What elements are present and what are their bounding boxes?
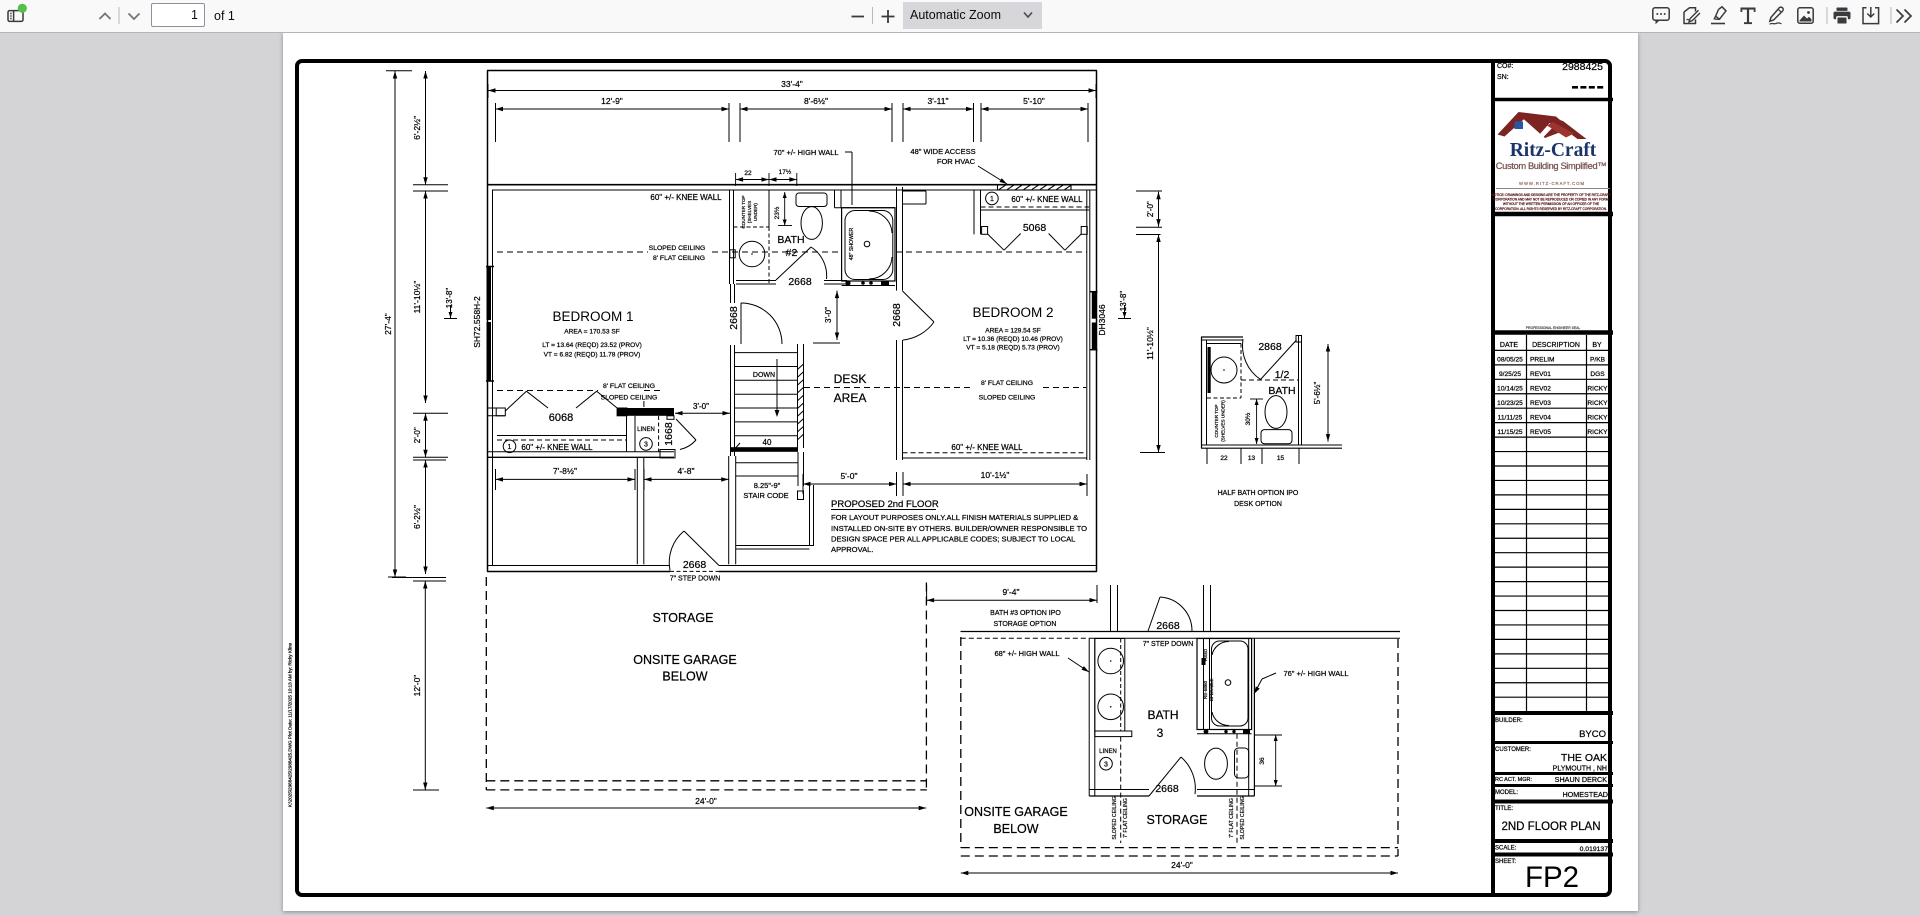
- svg-text:HOMESTEAD: HOMESTEAD: [1562, 790, 1608, 799]
- svg-text:COUNTER TOP: COUNTER TOP: [741, 195, 746, 228]
- svg-text:PROPOSED 2nd FLOOR: PROPOSED 2nd FLOOR: [831, 499, 939, 510]
- svg-text:BATH: BATH: [777, 234, 804, 246]
- circled 3 bath3: [1100, 757, 1113, 770]
- logo divider line: [1496, 188, 1610, 190]
- toolbar icon: image: [1798, 8, 1813, 23]
- label 60in knee wall left: [521, 443, 593, 452]
- label ONSITE GARAGE BELOW right: [964, 805, 1068, 836]
- wall partition storage: [637, 457, 644, 564]
- wall bath2 right: [897, 187, 903, 291]
- bedroom2 area stats: [963, 328, 1063, 352]
- svg-text:LINEN: LINEN: [637, 427, 655, 433]
- label STORAGE bath3: [1147, 813, 1208, 827]
- svg-text:REV03: REV03: [1530, 400, 1551, 407]
- dim 11'-10 1/2" left: [412, 191, 448, 403]
- bath3 top wall: [961, 632, 1401, 639]
- bath2 toilet: [796, 193, 827, 239]
- svg-text:FOR HVAC: FOR HVAC: [937, 157, 976, 166]
- dashed ceiling bed2: [804, 387, 1086, 389]
- svg-text:VT = 6.82 (REQD) 11.78 (PROV): VT = 6.82 (REQD) 11.78 (PROV): [544, 352, 641, 359]
- svg-text:68" +/- HIGH WALL: 68" +/- HIGH WALL: [994, 649, 1059, 658]
- Ritz-Craft roof logo: [1498, 112, 1587, 139]
- wall bed2 bottom band: [903, 453, 1087, 458]
- label 5068: [1023, 222, 1047, 234]
- svg-text:3'-0": 3'-0": [693, 402, 709, 411]
- bath2 vanity counter: [734, 190, 770, 283]
- svg-text:4'-8": 4'-8": [678, 466, 695, 476]
- label window DH3046: [1097, 304, 1107, 335]
- svg-text:HALF BATH OPTION IPO: HALF BATH OPTION IPO: [1218, 490, 1299, 497]
- label 60in knee wall right: [1011, 195, 1083, 204]
- sheet outer border: [297, 61, 1610, 895]
- svg-text:CUSTOMER:: CUSTOMER:: [1495, 747, 1531, 753]
- label BEDROOM 1: [552, 309, 633, 324]
- stamp area seal caption: [1526, 326, 1581, 330]
- label 2868 halfbath: [1258, 341, 1282, 353]
- dim 27'-4" overall height: [383, 71, 412, 577]
- svg-text:SH72.558H-2: SH72.558H-2: [472, 296, 482, 348]
- svg-text:1: 1: [990, 196, 994, 203]
- toolbar: divider 3: [1826, 7, 1828, 24]
- svg-text:8'-6½": 8'-6½": [804, 96, 828, 106]
- bedroom1 door 2668 arc: [741, 303, 782, 344]
- label RE-5860 shower: [1203, 649, 1214, 701]
- halfbath toilet: [1261, 396, 1292, 444]
- door 2668 step down: [669, 531, 719, 571]
- wall: bottom exterior outer: [487, 571, 1097, 573]
- svg-text:RICKY: RICKY: [1587, 385, 1608, 392]
- label BATH #2: [777, 234, 804, 259]
- toolbar icon: save: [1863, 7, 1879, 24]
- svg-text:STORAGE: STORAGE: [1147, 813, 1208, 827]
- svg-text:23½: 23½: [773, 206, 781, 219]
- svg-text:15: 15: [1277, 455, 1285, 462]
- bath3 shower door arcs: [1212, 641, 1229, 725]
- svg-text:BELOW: BELOW: [993, 822, 1038, 836]
- title block info sections: [1493, 718, 1613, 894]
- svg-text:6068: 6068: [549, 412, 573, 424]
- bath3 shower: [1197, 639, 1252, 730]
- dim 22 bath counter: [736, 170, 769, 186]
- label bath3 option ipo: [990, 610, 1061, 628]
- circled 3 linen: [640, 438, 653, 451]
- svg-text:2988425: 2988425: [1562, 61, 1603, 73]
- svg-text:SLOPED CEILING: SLOPED CEILING: [1112, 796, 1118, 839]
- dim 7'-8 1/2": [496, 466, 636, 490]
- dim 3'-0" bath2 door: [813, 291, 840, 343]
- dim 13'-8" left: [444, 288, 457, 319]
- label 2668 bedroom2 door: [891, 303, 903, 327]
- svg-text:5068: 5068: [1023, 222, 1047, 234]
- dim 3'-0" closet: [675, 402, 730, 415]
- svg-text:9/25/25: 9/25/25: [1499, 371, 1521, 378]
- svg-text:BATH #3 OPTION IPO: BATH #3 OPTION IPO: [990, 610, 1061, 617]
- logo box bottom border: [1493, 212, 1613, 217]
- label 60in knee wall bed2: [951, 443, 1023, 452]
- svg-text:DH3046: DH3046: [1097, 304, 1107, 335]
- bath3 wall stub right: [1204, 585, 1211, 632]
- wall: roofline top: [487, 70, 1097, 72]
- svg-text:CORPORATION AND MAY NOT BE REP: CORPORATION AND MAY NOT BE REPRODUCED OR…: [1494, 198, 1609, 202]
- svg-text:AREA = 170.53 SF: AREA = 170.53 SF: [564, 329, 620, 336]
- svg-text:1668: 1668: [663, 422, 675, 446]
- toolbar icon: comment: [1653, 8, 1669, 24]
- svg-text:76" +/- HIGH WALL: 76" +/- HIGH WALL: [1283, 669, 1348, 678]
- knee wall right lower dashed: [903, 452, 1087, 454]
- toolbar: divider 2: [872, 7, 874, 24]
- svg-text:60" +/- KNEE WALL: 60" +/- KNEE WALL: [521, 443, 593, 452]
- svg-text:OPERABLE: OPERABLE: [1209, 679, 1214, 702]
- toolbar: zoom out minus: [852, 16, 865, 18]
- svg-text:33'-4": 33'-4": [781, 79, 803, 89]
- svg-text:30½: 30½: [1244, 412, 1252, 425]
- svg-text:48" SHOWER: 48" SHOWER: [849, 228, 855, 261]
- wall bottom band left section: [487, 452, 674, 458]
- dim 17 1/2 bath: [769, 168, 797, 186]
- svg-text:INSTALLED ON-SITE BY OTHERS. B: INSTALLED ON-SITE BY OTHERS. BUILDER/OWN…: [831, 524, 1087, 533]
- svg-text:PROFESSIONAL ENGINEER SEAL: PROFESSIONAL ENGINEER SEAL: [1526, 326, 1581, 330]
- svg-text:13: 13: [1248, 455, 1256, 462]
- svg-text:WWW.RITZ-CRAFT.COM: WWW.RITZ-CRAFT.COM: [1519, 181, 1585, 186]
- note 68in high wall: [994, 649, 1089, 672]
- stair treads: [735, 353, 797, 436]
- SN dashes: [1572, 86, 1603, 89]
- bath3 toilet: [1205, 748, 1249, 779]
- svg-text:5'-10": 5'-10": [1023, 96, 1045, 106]
- toolbar: sidebar toggle button: [8, 11, 23, 22]
- svg-text:12'-9": 12'-9": [601, 96, 623, 106]
- closet under stair walls: [736, 452, 814, 549]
- bedroom1 area stats: [542, 329, 642, 359]
- svg-text:11/15/25: 11/15/25: [1497, 429, 1523, 436]
- svg-text:9'-4": 9'-4": [1003, 587, 1020, 597]
- wall above shower: [835, 190, 896, 208]
- stair rail hatch: [798, 364, 804, 440]
- plot file path sidebar text: [288, 642, 293, 807]
- window 5068 sills: [982, 227, 1088, 235]
- toolbar icon: print: [1834, 8, 1851, 25]
- svg-text:NOTICE: DRAWINGS AND DESIGNS A: NOTICE: DRAWINGS AND DESIGNS ARE THE PRO…: [1492, 193, 1611, 197]
- circled 1 left knee wall: [503, 440, 516, 453]
- svg-text:P/KB: P/KB: [1590, 357, 1606, 364]
- dim 5'-0": [803, 471, 897, 496]
- bath3 door 2668 top: [1148, 597, 1192, 631]
- svg-text:BUILDER:: BUILDER:: [1495, 718, 1523, 724]
- svg-text:APPROVAL.: APPROVAL.: [831, 545, 874, 554]
- wall right of bath2 stub: [903, 191, 927, 204]
- svg-text:1: 1: [508, 444, 512, 451]
- label 2668 step down: [683, 559, 707, 571]
- bedroom2 door 2668: [903, 291, 935, 340]
- svg-text:PLYMOUTH , NH: PLYMOUTH , NH: [1553, 766, 1607, 773]
- label flat/sloped bed1: [601, 383, 658, 407]
- dim 6'-2 1/2" upper: [412, 71, 448, 185]
- svg-text:MODEL:: MODEL:: [1495, 790, 1518, 796]
- svg-text:7' FLAT CEILING: 7' FLAT CEILING: [1123, 798, 1129, 838]
- knee wall left lower: [497, 436, 626, 441]
- dim 36 toilet: [1255, 735, 1282, 786]
- door 1668 wedge: [660, 419, 696, 458]
- svg-text:FIXED: FIXED: [1203, 649, 1208, 661]
- dim 5'-6 1/2 halfbath: [1313, 344, 1330, 442]
- svg-text:(SHELVES UNDER): (SHELVES UNDER): [1221, 400, 1226, 442]
- svg-text:DESCRIPTION: DESCRIPTION: [1532, 342, 1580, 349]
- note PROPOSED 2nd FLOOR: [831, 499, 1087, 554]
- dim 2'-0" right: [1136, 191, 1162, 227]
- ceiling break dashed bath3 right: [1236, 734, 1238, 843]
- circled 1 right knee wall: [986, 192, 999, 205]
- svg-text:DESK: DESK: [834, 372, 867, 386]
- svg-text:BYCO: BYCO: [1579, 729, 1606, 740]
- svg-text:UNDER): UNDER): [753, 203, 758, 221]
- svg-text:2868: 2868: [1258, 341, 1282, 353]
- label 1668: [663, 422, 675, 446]
- svg-text:2668: 2668: [683, 559, 707, 571]
- bath3 bottom wall left: [1089, 790, 1149, 797]
- svg-text:36: 36: [1259, 757, 1266, 765]
- wall: knee wall top inner: [492, 189, 1097, 191]
- svg-text:60" +/- KNEE WALL: 60" +/- KNEE WALL: [650, 193, 722, 202]
- stamp box bottom border: [1493, 330, 1613, 335]
- toolbar: page down chevron: [129, 14, 140, 20]
- window 6068 sills: [496, 408, 627, 416]
- svg-text:LT = 13.64 (REQD) 23.52 (PROV): LT = 13.64 (REQD) 23.52 (PROV): [542, 342, 642, 349]
- label 2668 bedroom1 door: [728, 306, 740, 330]
- svg-text:70" +/- HIGH WALL: 70" +/- HIGH WALL: [773, 148, 838, 157]
- svg-text:RICKY: RICKY: [1587, 429, 1608, 436]
- labels flat/sloped bath3 right: [1229, 796, 1246, 839]
- dashed ceiling break upper: [497, 251, 1087, 253]
- svg-text:DESK OPTION: DESK OPTION: [1234, 501, 1282, 508]
- toolbar: zoom dropdown: [903, 2, 1042, 29]
- label counter top halfbath: [1214, 400, 1226, 442]
- svg-text:27'-4": 27'-4": [383, 313, 393, 335]
- svg-text:22: 22: [1220, 455, 1228, 462]
- bath3 shower track: [1197, 729, 1252, 734]
- svg-text:2668: 2668: [891, 303, 903, 327]
- svg-text:DGS: DGS: [1590, 371, 1605, 378]
- svg-text:10/23/25: 10/23/25: [1497, 400, 1523, 407]
- dim 10'-1 1/2": [903, 470, 1087, 496]
- svg-text:CO#:: CO#:: [1497, 63, 1513, 70]
- label 7in step down bath3: [1143, 641, 1194, 648]
- svg-text:REV04: REV04: [1530, 414, 1551, 421]
- svg-text:SHEET:: SHEET:: [1495, 859, 1516, 865]
- svg-text:48" WIDE ACCESS: 48" WIDE ACCESS: [910, 147, 975, 156]
- bath3 bottom wall right: [1197, 790, 1254, 797]
- svg-text:60" +/- KNEE WALL: 60" +/- KNEE WALL: [1011, 195, 1083, 204]
- svg-text:2ND FLOOR PLAN: 2ND FLOOR PLAN: [1501, 821, 1600, 833]
- svg-text:10'-1½": 10'-1½": [981, 470, 1010, 480]
- label BATH 3: [1147, 708, 1178, 740]
- svg-text:STAIR CODE: STAIR CODE: [743, 491, 788, 500]
- wall: left exterior outer: [487, 71, 489, 572]
- svg-text:AREA: AREA: [834, 391, 867, 405]
- svg-text:40: 40: [763, 438, 772, 447]
- svg-text:0.019137: 0.019137: [1580, 846, 1609, 853]
- toolbar icon: more tools: [1897, 10, 1912, 23]
- svg-text:BEDROOM 2: BEDROOM 2: [972, 305, 1053, 320]
- svg-text:2668: 2668: [1155, 783, 1179, 795]
- svg-text:8' FLAT CEILING: 8' FLAT CEILING: [603, 383, 655, 390]
- wall: left exterior inner: [492, 190, 494, 566]
- label BEDROOM 2: [972, 305, 1053, 320]
- svg-text:SLOPED CEILING: SLOPED CEILING: [1240, 796, 1246, 839]
- svg-text:11'-10½": 11'-10½": [1145, 327, 1155, 360]
- svg-text:8' FLAT CEILING: 8' FLAT CEILING: [653, 255, 705, 262]
- svg-text:6'-2½": 6'-2½": [412, 116, 422, 140]
- svg-text:SHAUN DERCK: SHAUN DERCK: [1555, 775, 1608, 784]
- dim 2'-0" left: [413, 413, 448, 457]
- dim 13'-8" right: [1118, 291, 1131, 319]
- wall stair left lower: [729, 456, 736, 564]
- label 7in step down: [670, 576, 721, 583]
- svg-text:SN:: SN:: [1497, 74, 1509, 81]
- wall bed1 bottom band: [487, 408, 674, 416]
- wall bath2 bottom: [736, 281, 847, 285]
- svg-text:22: 22: [744, 170, 752, 177]
- svg-text:K:\2025\2988425\2988425.DWG P: K:\2025\2988425\2988425.DWG Plot Date: 1…: [288, 642, 293, 807]
- svg-text:3'-0": 3'-0": [824, 307, 833, 323]
- svg-text:RE-5860: RE-5860: [1203, 680, 1208, 699]
- dim extension ticks top: [496, 103, 1089, 142]
- label DOWN: [753, 372, 775, 379]
- svg-text:BEDROOM 1: BEDROOM 1: [552, 309, 633, 324]
- svg-text:7" STEP DOWN: 7" STEP DOWN: [670, 576, 721, 583]
- svg-text:#2: #2: [786, 247, 798, 259]
- svg-text:12'-0": 12'-0": [412, 675, 422, 697]
- svg-text:BY: BY: [1592, 342, 1602, 349]
- svg-text:REV02: REV02: [1530, 385, 1551, 392]
- svg-text:1/2: 1/2: [1275, 369, 1290, 381]
- svg-text:LT = 10.36 (REQD) 10.46 (PROV): LT = 10.36 (REQD) 10.46 (PROV): [963, 336, 1063, 343]
- svg-text:DESIGN SPACE PER ALL APPLICABL: DESIGN SPACE PER ALL APPLICABLE CODES; S…: [831, 535, 1075, 544]
- dim 9'-4": [927, 585, 1097, 603]
- svg-text:08/05/25: 08/05/25: [1497, 357, 1523, 364]
- svg-text:DATE: DATE: [1500, 342, 1518, 349]
- shower 48 enclosure: [842, 208, 895, 281]
- label 60in knee wall left top: [650, 193, 722, 202]
- dim 24'-0" right: [961, 860, 1398, 875]
- halfbath left wall: [1202, 337, 1207, 448]
- svg-text:SLOPED CEILING: SLOPED CEILING: [601, 395, 658, 402]
- svg-text:24'-0": 24'-0": [1171, 860, 1193, 870]
- wall: knee wall top outer: [487, 184, 1097, 186]
- label 2668 bath3 top: [1156, 620, 1180, 632]
- label 1/2 BATH: [1268, 369, 1295, 397]
- shower 48 door arcs: [869, 211, 892, 279]
- toolbar: page count: [214, 0, 235, 32]
- label 2668 bath2: [788, 276, 812, 288]
- dim 33'-4" overall width: [488, 79, 1096, 98]
- toolbar: page number input: [151, 3, 205, 27]
- window DH3046 right wall: [1090, 292, 1098, 350]
- logo text Ritz-Craft: [1510, 140, 1597, 161]
- svg-text:PRELIM: PRELIM: [1530, 357, 1555, 364]
- svg-text:SLOPED CEILING: SLOPED CEILING: [979, 395, 1036, 402]
- svg-text:7'-8½": 7'-8½": [553, 466, 577, 476]
- halfbath top wall: [1201, 337, 1243, 340]
- wall: right exterior inner B: [1089, 190, 1091, 460]
- svg-text:6'-2½": 6'-2½": [412, 505, 422, 529]
- svg-text:2'-0": 2'-0": [413, 427, 422, 443]
- label ONSITE GARAGE BELOW left: [633, 653, 737, 684]
- revision table grid: [1493, 335, 1609, 712]
- note 70in high wall: [773, 148, 852, 205]
- svg-text:FOR LAYOUT PURPOSES ONLY.ALL F: FOR LAYOUT PURPOSES ONLY.ALL FINISH MATE…: [831, 513, 1078, 522]
- svg-text:17½: 17½: [779, 168, 792, 176]
- svg-text:COUNTER TOP: COUNTER TOP: [1214, 404, 1219, 437]
- viewer background: [0, 0, 1920, 33]
- window SH72 left wall: [486, 267, 494, 382]
- wall bath2 left: [730, 190, 734, 284]
- wall: right exterior outer: [1096, 71, 1098, 572]
- title block left border: [1491, 59, 1495, 897]
- bath3 vanity: [1095, 639, 1125, 732]
- note 76in high wall: [1254, 669, 1349, 694]
- svg-text:5'-6½": 5'-6½": [1313, 382, 1322, 405]
- bath3 right wall: [1249, 639, 1255, 797]
- dim 24'-0" left: [486, 796, 926, 810]
- svg-text:AREA = 129.54 SF: AREA = 129.54 SF: [985, 328, 1041, 335]
- svg-text:ONSITE GARAGE: ONSITE GARAGE: [633, 653, 737, 667]
- toolbar icon: draw: [1770, 7, 1784, 24]
- toolbar icon: highlight: [1711, 7, 1726, 24]
- svg-text:RC ACT. MGR:: RC ACT. MGR:: [1495, 777, 1532, 783]
- svg-text:7" STEP DOWN: 7" STEP DOWN: [1143, 641, 1194, 648]
- shower 48 drain: [864, 241, 870, 247]
- svg-text:24'-0": 24'-0": [695, 796, 717, 806]
- svg-text:VT = 5.18 (REQD) 5.73 (PROV): VT = 5.18 (REQD) 5.73 (PROV): [966, 345, 1060, 352]
- svg-text:2668: 2668: [1156, 620, 1180, 632]
- svg-text:BATH: BATH: [1268, 385, 1295, 397]
- linen closet walls: [627, 416, 675, 452]
- label 2668 bath3 bottom: [1155, 783, 1179, 795]
- svg-text:8' FLAT CEILING: 8' FLAT CEILING: [981, 380, 1033, 387]
- revision table header: [1500, 342, 1602, 349]
- label stair width 40: [763, 438, 772, 447]
- svg-text:LINEN: LINEN: [1099, 749, 1117, 755]
- label half bath caption: [1218, 490, 1299, 508]
- svg-text:60" +/- KNEE WALL: 60" +/- KNEE WALL: [951, 443, 1023, 452]
- svg-text:3: 3: [1157, 726, 1164, 740]
- toolbar: page up chevron: [100, 14, 111, 20]
- hatch: 48in HVAC access strip: [998, 185, 1072, 190]
- halfbath vanity: [1207, 344, 1241, 399]
- wall bedroom2 left: [897, 340, 903, 460]
- svg-text:13'-8": 13'-8": [445, 288, 454, 309]
- svg-text:RICKY: RICKY: [1587, 400, 1608, 407]
- svg-text:2668: 2668: [788, 276, 812, 288]
- label window SH72.558H-2: [472, 296, 482, 348]
- halfbath dim ticks: [1207, 448, 1299, 464]
- dim 23 1/2 vert: [773, 192, 792, 226]
- label 48 shower: [849, 228, 855, 261]
- svg-text:10/14/25: 10/14/25: [1497, 385, 1523, 392]
- svg-text:BELOW: BELOW: [662, 670, 707, 684]
- svg-text:2668: 2668: [728, 306, 740, 330]
- svg-text:FP2: FP2: [1525, 861, 1579, 894]
- PDF page: [283, 33, 1638, 911]
- wall: bottom exterior inner: [487, 565, 1097, 567]
- labels sloped/flat bath3 left: [1112, 796, 1129, 839]
- toolbar: divider 1: [118, 7, 120, 24]
- toolbar icon: add signature: [1684, 8, 1700, 24]
- svg-text:11/11/25: 11/11/25: [1498, 414, 1523, 421]
- dim 6'-2 1/2" lower: [392, 460, 446, 581]
- svg-text:CORPORATION. ALL RIGHTS RESERV: CORPORATION. ALL RIGHTS RESERVED BY RITZ…: [1495, 207, 1607, 211]
- svg-text:REV05: REV05: [1530, 429, 1551, 436]
